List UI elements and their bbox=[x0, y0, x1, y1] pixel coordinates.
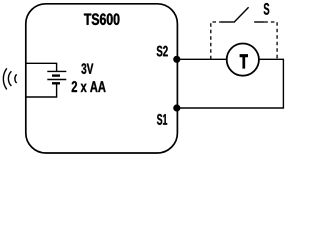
wire battery negative to enclosure left edge bbox=[26, 83, 57, 97]
battery cell 1 short plate bbox=[52, 74, 60, 76]
thermostat circle T bbox=[227, 44, 259, 76]
label 2 x AA bbox=[72, 81, 106, 92]
switch left contact bbox=[221, 21, 234, 23]
enclosure box TS600 device outline bbox=[26, 4, 178, 153]
label T bbox=[240, 55, 248, 69]
terminal dot S2 bbox=[173, 56, 180, 63]
label TS600 bbox=[84, 13, 119, 25]
terminal dot S1 bbox=[173, 104, 180, 111]
switch dashed leader left bbox=[211, 22, 221, 59]
wire loop S2 to thermostat to S1 bbox=[177, 59, 283, 108]
wire battery positive to enclosure left edge bbox=[26, 63, 57, 71]
sounder wave arc 1 (outer) bbox=[3, 68, 6, 89]
sounder wave arc 2 (middle) bbox=[8, 71, 11, 86]
label 3V bbox=[81, 63, 93, 74]
battery cell 2 short plate bbox=[52, 82, 60, 84]
battery cell 2 long plate bbox=[47, 79, 66, 81]
label terminal S2 bbox=[157, 46, 168, 57]
label terminal S1 bbox=[157, 114, 167, 125]
battery cell 1 long plate bbox=[47, 70, 66, 72]
switch right contact bbox=[254, 21, 264, 23]
label S switch bbox=[264, 3, 270, 15]
switch blade bbox=[234, 7, 249, 22]
sounder wave arc 3 (inner) bbox=[15, 74, 17, 83]
switch dashed leader right bbox=[264, 22, 277, 59]
